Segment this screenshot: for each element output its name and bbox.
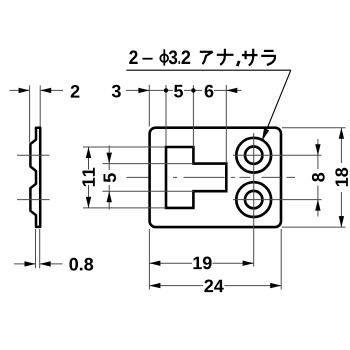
left dim 5 line	[108, 146, 110, 171]
dim text 24	[204, 280, 223, 293]
side view top hole crosshair	[17, 154, 50, 156]
notch cutout	[166, 147, 226, 208]
top dim line segments	[126, 89, 149, 91]
dim 24 line	[149, 285, 203, 287]
dim text 3	[112, 85, 121, 98]
bottom ext lines	[148, 229, 150, 290]
dim 3 arrow	[138, 88, 149, 93]
dim 0.8 line + arrows	[14, 263, 36, 265]
left dim 11 line	[88, 147, 90, 170]
dim 0.8 ext lines	[35, 229, 37, 268]
side profile outline	[30, 128, 40, 227]
bottom hole outer (countersink)	[236, 182, 271, 217]
dim text 5	[174, 85, 183, 98]
side view bottom hole crosshair	[17, 199, 50, 201]
left dim 11 extension lines	[83, 146, 166, 148]
top hole inner	[245, 147, 262, 164]
leader line to top hole	[262, 70, 290, 140]
dim text 8	[312, 173, 325, 182]
right dim 18 extension lines	[282, 127, 346, 129]
right dim 18 line	[340, 128, 342, 163]
dim 2 ext lines	[29, 85, 31, 142]
dim text 6	[205, 85, 214, 98]
bottom hole horizontal crosshair	[233, 199, 322, 201]
top hole horizontal crosshair	[233, 154, 322, 156]
dim text 18	[335, 168, 348, 186]
dim 2 line + arrows	[10, 89, 30, 91]
dim 6 arrow (outside, pointing left)	[226, 88, 237, 93]
top dim extension lines	[148, 85, 150, 127]
label katakana ana,sara	[200, 49, 275, 66]
plate outline	[150, 128, 281, 227]
dim text 2	[71, 85, 80, 98]
label text 2 - phi3.2	[129, 49, 190, 65]
horizontal centerline	[127, 176, 296, 178]
bottom hole inner	[245, 191, 262, 208]
dim text 5 (left)	[103, 173, 116, 182]
left dim 5 extension lines	[103, 163, 195, 165]
dim text 0.8	[69, 258, 93, 271]
label underline	[126, 69, 290, 71]
dim 19 line	[149, 262, 192, 264]
dim 5/6 dots	[164, 88, 168, 92]
leader arrowhead	[262, 128, 269, 141]
top hole outer (countersink)	[236, 138, 271, 173]
right dim 8 line	[317, 139, 319, 169]
dim text 19	[193, 257, 211, 270]
vertical hole centerline	[253, 133, 255, 267]
dim text 11	[82, 168, 94, 186]
